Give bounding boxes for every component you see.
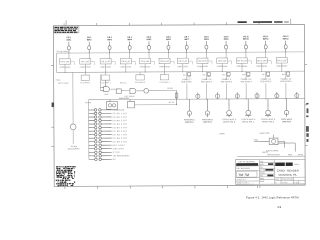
svg-text:COIL: COIL bbox=[254, 139, 258, 141]
svg-text:W3: W3 bbox=[222, 74, 225, 76]
svg-text:CB13: CB13 bbox=[56, 80, 61, 82]
junction node col 5 on rail A bbox=[148, 52, 149, 53]
latch box K6 bbox=[159, 53, 170, 64]
wire stub between K2 and K3 bbox=[91, 62, 95, 65]
svg-text:SEE NOTE 5: SEE NOTE 5 bbox=[260, 81, 271, 83]
latch box K8 bbox=[197, 52, 208, 63]
svg-text:CR 12 LAT: CR 12 LAT bbox=[277, 59, 288, 62]
svg-text:IMP10: IMP10 bbox=[243, 39, 250, 41]
zone tick marks left edge bbox=[51, 66, 54, 147]
margin marks right edge bbox=[306, 103, 309, 142]
mid label col 7 bbox=[181, 78, 192, 83]
column feed lower wire col 8 bbox=[206, 83, 208, 99]
junction node col 1 on rail A bbox=[68, 53, 69, 54]
latch box K3 bbox=[100, 53, 111, 64]
svg-text:DRIVE SOL 5: DRIVE SOL 5 bbox=[262, 121, 274, 123]
svg-text:CARD 4 LEVEL: CARD 4 LEVEL bbox=[120, 65, 131, 68]
latch box K7 bbox=[177, 52, 188, 63]
zone tick marks bottom edge bbox=[65, 185, 260, 189]
connector pin pair 9 bbox=[89, 137, 112, 140]
latch box K2 lower lead bbox=[84, 64, 86, 72]
wire stub between K9 and K10 bbox=[228, 61, 232, 64]
column feed lower wire col 12 bbox=[285, 83, 287, 99]
junction node col 10 on bus B bbox=[241, 71, 242, 72]
mid label col 12 bbox=[280, 78, 291, 83]
svg-text:CR 4 LAT: CR 4 LAT bbox=[121, 60, 130, 63]
svg-text:CARD 2 LEVEL: CARD 2 LEVEL bbox=[80, 66, 91, 69]
rail bus A bbox=[57, 52, 305, 53]
alignment tick above top border right bbox=[290, 19, 292, 24]
svg-text:UNIT 2: UNIT 2 bbox=[262, 152, 268, 154]
mid label col 10 bbox=[240, 78, 251, 83]
svg-text:IMP12: IMP12 bbox=[283, 38, 290, 40]
junction node col 7 on bus B bbox=[182, 71, 183, 72]
column feed wire col 11 bbox=[265, 71, 267, 79]
junction node col 11 on bus B bbox=[261, 71, 262, 72]
junction node col 10 on rail A bbox=[245, 52, 246, 53]
svg-text:DWG NO 2234: DWG NO 2234 bbox=[282, 179, 293, 181]
column feed lower wire col 11 bbox=[265, 83, 267, 99]
title area dark bar bbox=[275, 163, 293, 166]
input column label 7 bbox=[184, 37, 190, 41]
junction node col 5 on bus B bbox=[145, 71, 146, 72]
title lower grid bbox=[275, 177, 305, 184]
input column label 2 bbox=[87, 37, 93, 41]
svg-text:CR 7 LAT: CR 7 LAT bbox=[178, 60, 187, 63]
junction node col 9 on rail A bbox=[226, 52, 227, 53]
magnet coil M1 bbox=[187, 99, 191, 117]
latch box K12 bbox=[276, 52, 287, 63]
input coil T9 bbox=[225, 41, 228, 52]
svg-text:APPLICATION: APPLICATION bbox=[267, 153, 280, 156]
svg-text:CARD 12 LEVEL: CARD 12 LEVEL bbox=[276, 65, 287, 68]
svg-text:IMP11: IMP11 bbox=[263, 39, 270, 41]
title block left dark band bbox=[236, 163, 258, 166]
svg-text:DRIVE SOL 3: DRIVE SOL 3 bbox=[223, 122, 235, 124]
svg-text:CARD 8 LEVEL: CARD 8 LEVEL bbox=[197, 65, 208, 68]
svg-text:CD RD 2 BIT: CD RD 2 BIT bbox=[112, 117, 127, 119]
junction node CP1 rail C bbox=[176, 99, 177, 100]
magnet coil M6 bbox=[284, 99, 288, 117]
junction node col 6 on rail A bbox=[168, 52, 169, 53]
svg-text:EJECT SOL: EJECT SOL bbox=[260, 133, 270, 135]
junction node col 8 on bus B bbox=[202, 71, 203, 72]
svg-text:CR 6 LAT: CR 6 LAT bbox=[160, 60, 169, 63]
magnet coil M4 label bbox=[241, 118, 255, 123]
svg-text:SEE NOTE 6: SEE NOTE 6 bbox=[280, 81, 291, 83]
latch box K5 lower lead bbox=[144, 64, 146, 72]
svg-text:SEE NOTE 2: SEE NOTE 2 bbox=[201, 81, 212, 83]
magnet coil M2 bbox=[205, 99, 209, 117]
junction node col 4 on bus B bbox=[125, 72, 126, 73]
magnet coil M5 label bbox=[261, 118, 275, 123]
input coil T2 bbox=[88, 42, 91, 53]
svg-text:CD RD 4 BIT: CD RD 4 BIT bbox=[112, 124, 127, 126]
title block left rows bbox=[235, 160, 259, 185]
magnet coil M4 bbox=[245, 99, 251, 117]
zone tick marks right edge bbox=[305, 64, 308, 145]
svg-text:4R 7M: 4R 7M bbox=[169, 102, 175, 104]
relay box R1 bbox=[81, 72, 89, 80]
junction node col 3 on rail A bbox=[109, 52, 110, 53]
junction node col 11 on rail A bbox=[265, 51, 266, 52]
driver box U2 bbox=[127, 99, 134, 107]
svg-text:DR CHKD APPD: DR CHKD APPD bbox=[237, 167, 251, 170]
fuse F1 bbox=[70, 124, 76, 130]
approval stamp block bbox=[56, 166, 76, 186]
connector pin pair 5 bbox=[89, 123, 112, 126]
drawing title text bbox=[277, 169, 299, 177]
input column label 9 bbox=[224, 36, 230, 40]
junction node col 8 on rail A bbox=[206, 52, 207, 53]
svg-text:CR 1 LAT: CR 1 LAT bbox=[61, 60, 70, 63]
wire stub between K8 and K9 bbox=[208, 61, 212, 64]
wire stub between K7 and K8 bbox=[188, 61, 192, 64]
input column label 8 bbox=[204, 36, 210, 40]
or-gate G2 bbox=[130, 88, 136, 93]
svg-text:W4: W4 bbox=[242, 74, 245, 76]
rail bus B bbox=[57, 71, 305, 72]
pulse transformer PT4 bbox=[255, 92, 259, 99]
svg-text:CARD 10 LEVEL: CARD 10 LEVEL bbox=[236, 65, 247, 68]
magnet coil M1 label bbox=[184, 118, 195, 123]
rail bus C bbox=[89, 99, 305, 100]
input column label 12 bbox=[283, 36, 290, 40]
svg-text:PCH CL: PCH CL bbox=[120, 82, 127, 84]
svg-text:DASH: DASH bbox=[260, 171, 265, 174]
relay box R3 bbox=[136, 72, 144, 80]
svg-text:4 19: 4 19 bbox=[294, 182, 297, 184]
svg-text:CR 10 LAT: CR 10 LAT bbox=[237, 59, 248, 62]
approval stamp vertical strokes bbox=[56, 168, 74, 183]
connector bus vertical bbox=[88, 100, 90, 160]
middle column dark entries bbox=[265, 163, 273, 176]
middle column texts bbox=[260, 161, 266, 183]
connector pin pair 11 bbox=[89, 144, 112, 147]
junction node col 6 on bus B bbox=[164, 71, 165, 72]
svg-text:CR 3 LAT: CR 3 LAT bbox=[101, 60, 110, 63]
alignment tick above top border left bbox=[65, 20, 67, 25]
svg-text:TO CR: TO CR bbox=[85, 102, 91, 104]
junction node col 12 on rail A bbox=[285, 51, 286, 52]
svg-text:CR 9 LAT: CR 9 LAT bbox=[218, 60, 227, 63]
latch box K6 lower lead bbox=[164, 64, 166, 72]
svg-text:CD RD 3 BIT: CD RD 3 BIT bbox=[112, 120, 127, 122]
fuse F1 label bbox=[68, 146, 81, 150]
svg-text:DRIVE SOL 4: DRIVE SOL 4 bbox=[242, 121, 254, 123]
contact CB8 bbox=[207, 72, 210, 76]
svg-text:DRIVE SOL 2: DRIVE SOL 2 bbox=[203, 122, 212, 124]
junction node col 9 on bus B bbox=[222, 71, 223, 72]
tick below title block bbox=[256, 185, 258, 188]
buffer box B1 bbox=[116, 89, 121, 94]
connector pin pair 10 bbox=[89, 140, 112, 143]
svg-text:DRIVE SOL 1: DRIVE SOL 1 bbox=[185, 122, 194, 124]
input column label 6 bbox=[166, 37, 172, 41]
svg-text:LIST OF MATERIAL: LIST OF MATERIAL bbox=[238, 160, 255, 163]
wire stub between K5 and K6 bbox=[151, 61, 155, 64]
svg-text:CD RD 5 BIT: CD RD 5 BIT bbox=[113, 127, 128, 129]
svg-text:W5: W5 bbox=[262, 74, 265, 76]
title lower cells text bbox=[275, 179, 297, 185]
solenoid S1 bbox=[254, 135, 295, 152]
svg-text:CARD 11 LEVEL: CARD 11 LEVEL bbox=[256, 65, 267, 68]
input column label 10 bbox=[243, 36, 250, 40]
and-gate feed wire bbox=[99, 74, 101, 90]
column feed wire col 9 bbox=[225, 72, 227, 80]
junction node col 10 on rail C bbox=[246, 98, 247, 99]
svg-text:CR 5 LAT: CR 5 LAT bbox=[141, 60, 150, 63]
input column label 3 bbox=[107, 37, 113, 41]
svg-text:W2: W2 bbox=[203, 74, 206, 76]
svg-text:+6V PWR SUPPLY: +6V PWR SUPPLY bbox=[113, 155, 131, 157]
column feed wire col 7 bbox=[186, 72, 188, 80]
latch box K10 lower lead bbox=[241, 63, 243, 71]
svg-text:W6: W6 bbox=[282, 74, 285, 76]
zone tick marks top edge bbox=[64, 22, 259, 25]
svg-text:W1: W1 bbox=[183, 75, 186, 77]
input column label 5 bbox=[147, 37, 153, 41]
signature box bbox=[237, 171, 257, 177]
svg-text:HT TR: HT TR bbox=[260, 170, 266, 172]
connector pin pair 8 bbox=[89, 133, 112, 136]
column feed lower wire col 7 bbox=[186, 84, 188, 100]
pulse transformer PT5 bbox=[275, 92, 279, 99]
latch box K7 lower lead bbox=[182, 64, 184, 72]
input coil T10 bbox=[244, 41, 247, 52]
input coil T8 bbox=[205, 41, 208, 52]
svg-text:CD RD PULSE: CD RD PULSE bbox=[112, 110, 125, 112]
input coil T12 bbox=[284, 41, 287, 52]
junction node col 11 on rail C bbox=[265, 98, 266, 99]
stamp marks above frame top right bbox=[238, 21, 289, 23]
mid label col 8 bbox=[201, 78, 212, 83]
junction node col 12 on rail C bbox=[285, 98, 286, 99]
svg-text:CLU MAG 4: CLU MAG 4 bbox=[159, 81, 169, 84]
connector pin pair 13 bbox=[89, 151, 112, 154]
svg-text:SEE NOTE 1: SEE NOTE 1 bbox=[181, 82, 192, 84]
svg-text:CD RD 6 BIT: CD RD 6 BIT bbox=[113, 131, 128, 133]
svg-text:CARD 6 LEVEL: CARD 6 LEVEL bbox=[159, 65, 170, 68]
connector pin pair 1 bbox=[89, 109, 112, 112]
wire stub between K3 and K4 bbox=[111, 62, 115, 65]
magnet coil M2 label bbox=[202, 118, 213, 123]
svg-text:Figure 4-2. 1442 Logic Refere: Figure 4-2. 1442 Logic Reference 4R7M bbox=[246, 195, 299, 199]
latch box K1 lower lead bbox=[64, 64, 66, 72]
svg-text:CARD 7 LEVEL: CARD 7 LEVEL bbox=[177, 65, 188, 68]
svg-text:PART: PART bbox=[260, 180, 264, 183]
and-gate G1 bbox=[100, 80, 109, 92]
svg-text:417702: 417702 bbox=[282, 182, 288, 184]
latch box K4 bbox=[120, 53, 131, 64]
border frame bbox=[53, 24, 305, 186]
latch box K1 bbox=[59, 53, 70, 64]
svg-text:CR 8 LAT: CR 8 LAT bbox=[198, 60, 207, 63]
wire G1 to B1 bbox=[111, 88, 117, 90]
magnet coil M6 label bbox=[281, 118, 292, 123]
column feed lower wire col 10 bbox=[245, 83, 247, 99]
capacitor component CP1 bbox=[175, 91, 178, 105]
junction node col 12 on bus B bbox=[281, 71, 282, 72]
input coil T5 bbox=[147, 41, 150, 52]
driver circle C1 bbox=[144, 88, 149, 93]
latch box K11 lower lead bbox=[261, 63, 263, 71]
latch box K9 lower lead bbox=[221, 63, 223, 71]
svg-text:DRIVE SOL 6: DRIVE SOL 6 bbox=[282, 121, 291, 123]
svg-text:CD RD 1 BIT: CD RD 1 BIT bbox=[112, 113, 127, 115]
input column label 1 bbox=[67, 37, 73, 41]
latch box K4 lower lead bbox=[125, 64, 127, 72]
pulse transformer PT3 bbox=[235, 92, 239, 99]
relay box R2 bbox=[101, 72, 109, 80]
contact CB7 bbox=[188, 73, 191, 77]
svg-text:CR 11 LAT: CR 11 LAT bbox=[257, 59, 267, 62]
svg-text:CD RD 8 BIT: CD RD 8 BIT bbox=[113, 138, 128, 140]
svg-text:CHK LIGHT: CHK LIGHT bbox=[113, 148, 125, 150]
wire stub between K11 and K12 bbox=[267, 61, 271, 64]
wire stub between K4 and K5 bbox=[131, 61, 135, 64]
svg-text:CARD 9 LEVEL: CARD 9 LEVEL bbox=[217, 65, 228, 68]
svg-text:1442-2: 1442-2 bbox=[294, 164, 300, 166]
relay box R4 bbox=[160, 72, 168, 80]
middle column grid bbox=[259, 160, 274, 185]
junction node col 9 on rail C bbox=[226, 98, 227, 99]
svg-text:TM 7M: TM 7M bbox=[238, 173, 249, 177]
input coil T7 bbox=[185, 41, 188, 52]
title block header strip bbox=[237, 155, 305, 157]
magnet coil M5 bbox=[265, 99, 271, 117]
latch box K8 lower lead bbox=[201, 63, 203, 71]
svg-text:AMPLIFIER: AMPLIFIER bbox=[119, 97, 130, 100]
latch box K3 lower lead bbox=[105, 64, 107, 72]
junction node col 7 on rail C bbox=[186, 99, 187, 100]
magnet coil M3 bbox=[226, 99, 232, 117]
input coil T6 bbox=[167, 41, 170, 52]
column feed lower wire col 9 bbox=[225, 83, 227, 99]
contact CB10 bbox=[247, 72, 250, 76]
wire G2 to C1 bbox=[137, 90, 144, 92]
junction node col 2 on bus B bbox=[85, 72, 86, 73]
amplifier box U1 bbox=[106, 100, 117, 110]
svg-text:CLU MAG 1: CLU MAG 1 bbox=[80, 81, 90, 84]
junction node col 3 on bus B bbox=[105, 72, 106, 73]
svg-text:CARD 3 LEVEL: CARD 3 LEVEL bbox=[100, 66, 111, 69]
svg-text:CLU MAG 3: CLU MAG 3 bbox=[135, 81, 145, 84]
left feed wire bbox=[72, 72, 74, 124]
svg-text:4-9: 4-9 bbox=[277, 205, 281, 209]
connector pin pair 6 bbox=[89, 126, 112, 129]
column feed wire col 10 bbox=[245, 71, 247, 79]
svg-text:MTR SUPPLY: MTR SUPPLY bbox=[68, 149, 81, 151]
fuse F1 lower lead bbox=[72, 130, 74, 144]
junction node col 1 on bus B bbox=[64, 72, 65, 73]
svg-text:SEE NOTE 4: SEE NOTE 4 bbox=[241, 81, 252, 83]
connector pin pair 4 bbox=[89, 119, 112, 122]
pulse transformer PT2 bbox=[215, 92, 219, 99]
title block outer bbox=[235, 159, 305, 184]
wire stub between K10 and K11 bbox=[247, 61, 251, 64]
latch box K2 bbox=[80, 53, 91, 64]
connector pin pair 15 bbox=[89, 158, 112, 161]
svg-text:SCALE 4-2: SCALE 4-2 bbox=[237, 178, 246, 181]
wire stub between K1 and K2 bbox=[70, 62, 74, 65]
connector pin pair 2 bbox=[89, 112, 112, 115]
left cell small text rows bbox=[237, 167, 251, 185]
svg-text:CD RD 7 BIT: CD RD 7 BIT bbox=[113, 134, 128, 136]
latch box K5 bbox=[140, 53, 151, 64]
connector pin pair 7 bbox=[89, 130, 112, 133]
svg-text:DATE: DATE bbox=[298, 153, 304, 156]
svg-text:2R 6M: 2R 6M bbox=[167, 88, 173, 90]
pulse transformer PT6 bbox=[295, 92, 299, 99]
svg-text:MATL: MATL bbox=[260, 163, 264, 166]
column feed wire col 12 bbox=[285, 71, 287, 79]
wire B1 to G2 bbox=[121, 89, 130, 91]
magnet coil M3 label bbox=[222, 118, 236, 123]
mid label col 11 bbox=[260, 78, 271, 83]
header strip text bbox=[267, 153, 303, 156]
mid label col 9 bbox=[221, 78, 232, 83]
latch box K12 lower lead bbox=[281, 63, 283, 71]
connector pin pair 12 bbox=[89, 147, 112, 150]
svg-text:CARD 1 LEVEL: CARD 1 LEVEL bbox=[59, 66, 70, 69]
connector pin pair 14 bbox=[89, 155, 112, 158]
svg-text:RD CL MAG: RD CL MAG bbox=[58, 82, 69, 85]
svg-text:SEE NOTE 3: SEE NOTE 3 bbox=[221, 81, 232, 83]
wire stub between K6 and K7 bbox=[170, 61, 174, 64]
svg-text:RDY LIGHT: RDY LIGHT bbox=[113, 145, 126, 147]
wire C1 long run bbox=[149, 90, 177, 92]
input coil T1 bbox=[67, 42, 70, 53]
connector pin pair 3 bbox=[89, 116, 112, 119]
svg-text:TO CB CAM: TO CB CAM bbox=[56, 50, 67, 53]
svg-text:CARD 5 LEVEL: CARD 5 LEVEL bbox=[140, 65, 151, 68]
left vertical bus bbox=[56, 53, 58, 72]
svg-text:STOP: STOP bbox=[113, 152, 121, 154]
contact CB9 bbox=[227, 72, 230, 76]
input column label 4 bbox=[127, 36, 133, 41]
input coil T4 bbox=[128, 41, 131, 52]
signature marks bbox=[238, 173, 249, 177]
svg-text:CR 2 LAT: CR 2 LAT bbox=[81, 60, 90, 63]
svg-text:TOL: TOL bbox=[260, 161, 263, 163]
column feed wire col 8 bbox=[206, 72, 208, 80]
notes text block bbox=[54, 26, 79, 33]
contact CB12 bbox=[287, 72, 290, 76]
svg-text:CD RD 9 BIT: CD RD 9 BIT bbox=[113, 141, 128, 143]
contact CB11 bbox=[267, 72, 270, 76]
pulse transformer PT1 bbox=[196, 92, 200, 99]
svg-text:SHEET 1 OF 1: SHEET 1 OF 1 bbox=[237, 183, 249, 185]
svg-text:CONTROL P/L: CONTROL P/L bbox=[278, 173, 297, 177]
latch box K10 bbox=[236, 52, 247, 63]
latch box K11 bbox=[256, 52, 267, 63]
latch box K9 bbox=[217, 52, 228, 63]
junction node col 8 on rail C bbox=[206, 99, 207, 100]
svg-text:NOTE: NOTE bbox=[220, 133, 226, 135]
junction node col 4 on rail A bbox=[129, 52, 130, 53]
junction node col 7 on rail A bbox=[186, 52, 187, 53]
zone label blob left edge bbox=[52, 102, 54, 107]
input coil T11 bbox=[264, 41, 267, 52]
input coil T3 bbox=[108, 42, 111, 53]
input column label 11 bbox=[263, 36, 270, 40]
junction node col 2 on rail A bbox=[89, 52, 90, 53]
wire U2 output bbox=[134, 104, 177, 105]
